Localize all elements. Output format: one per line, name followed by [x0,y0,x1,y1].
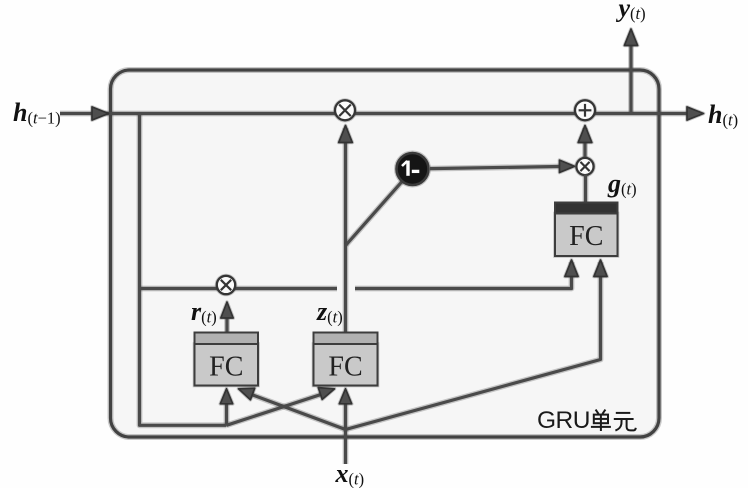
wire: branch up into r FC box [224,394,230,425]
arrowhead into adder [578,126,592,143]
wire: mid line from h feed to reset product, left of z crossing [140,286,338,292]
multiplier node (r * h) [217,276,235,294]
wire: x up into z FC box [343,394,349,430]
z FC box (sigmoid layer) [314,333,378,386]
arrowhead at y(t) output [624,29,637,46]
svg-text:h(t−1): h(t−1) [13,98,61,128]
g FC box (tanh layer, dark header) [555,203,618,257]
wire: y(t) branch rising from main line [628,44,634,114]
wire: x(t) stem entering the cell from below [343,430,349,465]
arrowhead at h(t) output [687,107,704,120]
wire: g FC output up to multiplier [583,175,589,203]
r FC box (sigmoid layer) [195,333,259,386]
arrowhead into z FC bottom [339,389,351,404]
wire: diagonal tap from z line up to the 1- node [346,181,403,245]
svg-text:x(t): x(t) [335,459,365,488]
arrowhead of z line at top multiplier [339,126,353,143]
GRU cell enclosure (rounded box) [111,70,660,437]
arrowhead into g FC bottom right [594,260,607,277]
svg-text:FC: FC [328,352,362,383]
node 1- (one minus z) [397,153,429,185]
multiplier node (z * h) on main line [335,100,355,120]
arrowhead into r FC (tilted) [239,388,255,400]
arrowhead into g FC bottom left [565,260,578,277]
wire: x diagonal up-left into r FC box [246,393,346,430]
svg-text:y(t): y(t) [616,0,646,23]
svg-text:FC: FC [569,221,603,252]
multiplier node ((1-z) * g) [576,158,593,175]
wire: r FC output up to reset multiplier [224,312,230,333]
svg-text:GRU: GRU [537,407,590,434]
svg-text:FC: FC [209,352,243,383]
wire: mid line right of z crossing, turning up into g FC [355,262,572,289]
arrowhead into r FC bottom [220,389,232,404]
wire: (1-z)*g product up to adder [582,128,588,157]
arrowhead of r output at multiplier [221,302,233,318]
adder node on main line [575,100,595,120]
wire: 1- output to the (1-z) multiplier [430,166,566,168]
arrowhead into z FC (tilted) [318,388,334,400]
wire: h(t-1) inner feed down the left side and along the bottom [140,114,227,426]
arrowhead into (1-z) multiplier [560,160,575,172]
wire: z FC output rising to the forget multiplier [343,128,349,333]
label: Chinese character YUAN (of "unit") drawn as strokes [614,413,636,431]
arrowhead where h(t-1) enters the cell [92,107,109,120]
wire: h diagonal up-right into z FC box [227,393,328,426]
wire: x path diagonal up to g FC right input [346,262,601,430]
svg-text:h(t): h(t) [708,100,738,130]
label: Chinese character DAN (of "unit") drawn as strokes [591,410,611,431]
wire: main h state line from h(t-1) input to h(t) output [60,111,700,117]
